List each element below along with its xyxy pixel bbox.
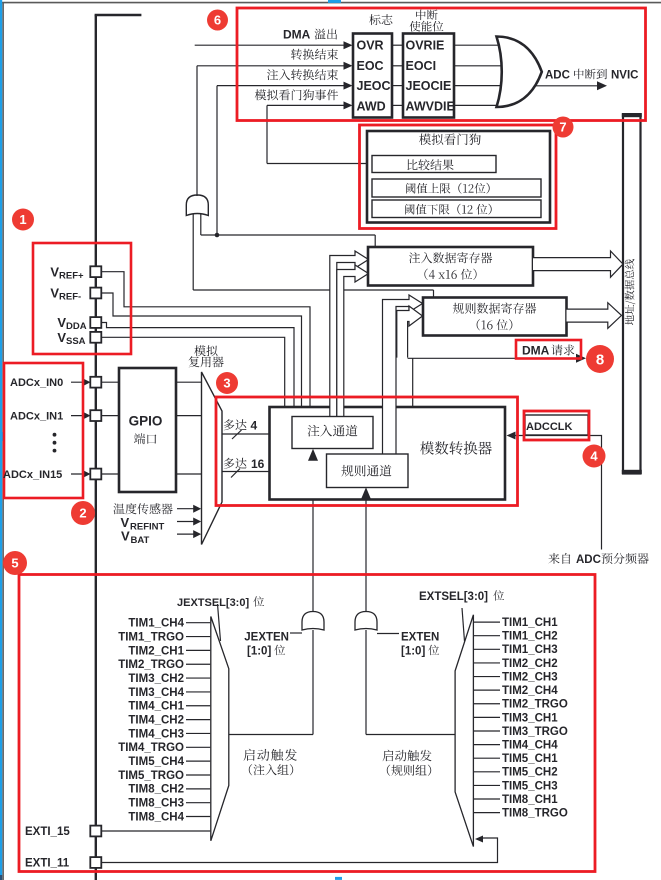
wire JEOC drop to injected register — [374, 235, 376, 248]
svg-text:JEXTEN: JEXTEN — [244, 631, 289, 643]
analog watchdog outer box — [367, 131, 550, 223]
svg-text:TIM5_TRGO: TIM5_TRGO — [118, 770, 184, 782]
arrow vbat into mux — [193, 530, 201, 538]
wire JEOC horizontal run — [201, 234, 375, 236]
svg-text:EXTSEL[3:0]: EXTSEL[3:0] — [419, 591, 488, 603]
svg-text:ADC: ADC — [545, 69, 570, 81]
label 比较结果 — [407, 159, 453, 170]
wire EXTEN gate input vertical — [365, 630, 367, 735]
label 注入转换结束 — [267, 69, 338, 80]
wire ADC input row 2 label-to-pin — [71, 473, 89, 475]
label 注入通道 — [308, 425, 358, 437]
wire TIM8_CH4 left — [186, 816, 210, 818]
wire TIM3_CH4 left — [186, 691, 210, 693]
red box 6 interrupt section — [237, 8, 646, 121]
label 模数转换器 — [420, 441, 492, 454]
regular data register box — [423, 298, 567, 336]
svg-text:REFINT: REFINT — [130, 521, 165, 532]
regular channel box — [327, 454, 409, 488]
svg-text:EXTI_15: EXTI_15 — [25, 826, 70, 838]
injected trigger mux — [211, 617, 229, 841]
lower threshold box — [372, 200, 541, 218]
svg-text:TIM5_CH2: TIM5_CH2 — [502, 767, 558, 779]
svg-text:V: V — [57, 330, 66, 345]
svg-text:TIM8_TRGO: TIM8_TRGO — [502, 808, 568, 820]
wire TIM2_CH1 left — [186, 649, 210, 651]
wire ADC input row 1 label-to-pin — [71, 415, 89, 417]
pin square VDDA — [90, 317, 101, 328]
label 多达16 — [224, 458, 247, 469]
svg-text:V: V — [50, 286, 59, 301]
svg-text:5: 5 — [11, 556, 18, 571]
arrow into OVR — [344, 41, 353, 49]
ADCCLK red box — [524, 411, 589, 440]
svg-text:EXTEN: EXTEN — [401, 631, 439, 643]
red box 2 adc inputs — [4, 363, 83, 498]
arrow EXTI_11 into mux — [475, 836, 483, 843]
regular trigger mux — [455, 615, 473, 847]
upper threshold box — [372, 179, 541, 197]
wire JEXTEN gate input vertical — [312, 630, 314, 735]
wire enable to orgate — [454, 65, 502, 67]
wire TIM4_CH2 left — [186, 719, 210, 721]
wire flag to enable — [392, 65, 403, 67]
wire flag to enable — [392, 104, 403, 106]
wire JEXTSEL select — [218, 604, 221, 641]
pin square VREF- — [90, 288, 101, 299]
svg-text:TIM5_CH4: TIM5_CH4 — [128, 756, 184, 768]
label 启动触发 injected — [244, 749, 297, 761]
wire EXTI_15 to mux — [102, 830, 211, 832]
arrow trigger into regular channel — [361, 487, 371, 499]
svg-text:REF+: REF+ — [59, 270, 84, 281]
regular data bent arrow 1 — [383, 295, 423, 454]
circle 4 — [583, 445, 606, 468]
wire EOC drop to regular register — [433, 290, 435, 298]
svg-text:EOCI: EOCI — [406, 59, 437, 73]
svg-text:BAT: BAT — [131, 535, 150, 546]
svg-text:TIM1_CH3: TIM1_CH3 — [502, 644, 558, 656]
injected data bent arrow 2 — [337, 265, 369, 416]
wire TIM2_TRGO left — [186, 663, 210, 665]
svg-text:TIM3_CH4: TIM3_CH4 — [128, 687, 184, 699]
wire TIM8_TRGO right — [474, 812, 500, 814]
label 来自ADC预分频器 — [548, 553, 570, 564]
wire DMA overflow to OVR — [195, 44, 346, 46]
wire GPIO to mux row 0 — [176, 381, 202, 383]
wire VREF- route — [102, 293, 302, 407]
wire flag to enable — [392, 85, 403, 87]
svg-text:ADCx_IN1: ADCx_IN1 — [10, 411, 63, 423]
blue tick top edge — [328, 0, 341, 3]
arrow into pin row 2 — [84, 471, 91, 478]
wire TIM1_CH2 right — [474, 635, 500, 637]
blue selection border left dark tail — [0, 875, 2, 880]
circle 6 — [207, 10, 228, 31]
svg-text:6: 6 — [214, 13, 221, 28]
label 地址/数据总线 vertical — [625, 259, 636, 325]
svg-text:16: 16 — [251, 457, 265, 471]
wire TIM5_TRGO left — [186, 774, 210, 776]
label (4x16位) — [424, 269, 476, 280]
wire TIM3_CH2 left — [186, 677, 210, 679]
pin square VREF+ — [90, 266, 101, 277]
svg-text:TIM4_TRGO: TIM4_TRGO — [118, 742, 184, 754]
svg-text:ADC: ADC — [576, 554, 601, 566]
arrow temp into mux — [193, 505, 201, 513]
svg-text:EOC: EOC — [357, 59, 384, 73]
wire TIM5_CH4 left — [186, 760, 210, 762]
svg-text:[1:0]: [1:0] — [247, 645, 271, 657]
wire TIM4_TRGO left — [186, 746, 210, 748]
wire TIM4_CH4 right — [474, 744, 500, 746]
circle 5 — [3, 551, 27, 575]
svg-text:JEOCIE: JEOCIE — [406, 79, 452, 93]
svg-text:TIM2_CH2: TIM2_CH2 — [502, 658, 558, 670]
compare result box — [372, 156, 496, 173]
label 使能位 — [410, 21, 444, 32]
wire rail top horizontal stub — [95, 14, 142, 16]
svg-text:TIM1_TRGO: TIM1_TRGO — [118, 631, 184, 643]
wire injected mux output — [229, 734, 313, 736]
GPIO port box — [119, 368, 176, 492]
bus bottom cap — [622, 470, 642, 474]
arrow into AWD — [344, 101, 353, 109]
slash tick duoda4 — [232, 430, 242, 439]
circle 7 — [553, 117, 574, 138]
wire EXTSEL select — [462, 608, 465, 641]
wire pin to GPIO row 1 — [102, 415, 120, 417]
wire EXTEN label line — [377, 633, 399, 635]
svg-text:TIM1_CH1: TIM1_CH1 — [502, 617, 558, 629]
wire TIM2_CH3 right — [474, 676, 500, 678]
wire TIM5_CH1 right — [474, 757, 500, 759]
svg-text:TIM2_CH3: TIM2_CH3 — [502, 671, 558, 683]
svg-text:8: 8 — [596, 351, 604, 368]
wire TIM8_CH1 right — [474, 798, 500, 800]
svg-text:ADCCLK: ADCCLK — [526, 421, 572, 433]
wire temp to mux — [177, 508, 194, 510]
svg-text:TIM2_CH1: TIM2_CH1 — [128, 645, 184, 657]
pin square EXTI_11 — [90, 857, 101, 868]
svg-text:JEOC: JEOC — [357, 79, 391, 93]
red box 1 vref pins — [33, 243, 131, 354]
label 温度传感器 — [113, 503, 172, 514]
wire GPIO to mux row 1 — [176, 415, 202, 417]
wire TIM4_CH3 left — [186, 732, 210, 734]
regular to bus hollow arrow — [567, 303, 622, 329]
circle 2 — [71, 501, 95, 525]
svg-text:GPIO: GPIO — [129, 414, 163, 429]
slash tick duoda16 — [231, 469, 240, 478]
svg-text:TIM8_CH2: TIM8_CH2 — [128, 784, 184, 796]
circle 3 — [216, 372, 238, 394]
wire VREF+ route — [102, 272, 311, 407]
wire AWD to flag box — [267, 104, 346, 106]
svg-text:TIM4_CH4: TIM4_CH4 — [502, 739, 558, 751]
svg-text:TIM2_TRGO: TIM2_TRGO — [118, 659, 184, 671]
label 转换结束 — [291, 49, 338, 60]
wire TIM2_CH4 right — [474, 689, 500, 691]
label (16位) — [477, 319, 513, 330]
enable box — [403, 34, 454, 118]
wire TIM1_CH4 left — [186, 622, 210, 624]
wire DMA request horizontal — [408, 357, 580, 359]
wire pin to GPIO row 2 — [102, 473, 120, 475]
wire TIM2_TRGO right — [474, 703, 500, 705]
wire flag to enable — [392, 44, 403, 46]
wire mux to regular channel — [222, 471, 320, 473]
svg-text:TIM1_CH2: TIM1_CH2 — [502, 631, 558, 643]
label 规则组 — [387, 765, 431, 776]
svg-text:2: 2 — [79, 506, 86, 521]
svg-text:NVIC: NVIC — [611, 69, 638, 81]
svg-text:TIM8_CH1: TIM8_CH1 — [502, 794, 558, 806]
injected data register box — [368, 247, 533, 286]
wire VSSA route — [102, 337, 285, 406]
svg-text:3: 3 — [223, 376, 230, 391]
blue selection border left — [0, 0, 2, 875]
svg-text:DDA: DDA — [66, 321, 87, 332]
arrow vrefint into mux — [193, 518, 201, 526]
label 阈值上限 — [406, 183, 490, 194]
blue tick bottom edge — [335, 877, 342, 880]
svg-text:V: V — [57, 315, 66, 330]
wire regular mux output — [366, 734, 455, 736]
arrow trigger into injected channel — [308, 449, 318, 461]
wire GPIO to mux row 2 — [176, 473, 202, 475]
svg-text:1: 1 — [19, 212, 26, 227]
page frame gray border left — [2, 2, 4, 880]
svg-text:TIM2_TRGO: TIM2_TRGO — [502, 699, 568, 711]
junction JEOC node — [215, 233, 220, 238]
arrow into pin row 1 — [84, 412, 91, 419]
bus top cap — [622, 113, 642, 117]
injected channel box — [292, 417, 373, 449]
svg-text:AWVDIE: AWVDIE — [406, 99, 455, 113]
arrow into injected channel — [280, 429, 292, 439]
injected data bent arrow 1 — [330, 251, 369, 416]
wire AWD vertical — [266, 105, 268, 163]
blue tick left edge — [0, 432, 5, 441]
svg-text:7: 7 — [559, 120, 566, 135]
label 规则数据寄存器 — [453, 303, 536, 314]
wire injected trigger vertical — [312, 449, 314, 611]
pin square VSSA — [90, 332, 101, 343]
regular data bent arrow 2 — [397, 306, 423, 358]
wire OR gate input injected vertical — [200, 214, 202, 235]
wire TIM3_CH1 right — [474, 716, 500, 718]
wire TIM1_CH3 right — [474, 648, 500, 650]
wire vrefint to mux — [177, 521, 194, 523]
wire mux to injected channel — [222, 433, 285, 435]
wire TIM8_CH3 left — [186, 802, 210, 804]
pin square IN15 — [90, 469, 101, 480]
label 模拟看门狗 — [419, 133, 481, 145]
svg-text:ADCx_IN0: ADCx_IN0 — [10, 377, 63, 389]
wire VDDA route — [102, 323, 295, 407]
wire EXTI_11 — [102, 838, 498, 863]
svg-text:EXTI_11: EXTI_11 — [25, 858, 70, 870]
wire enable to orgate — [454, 44, 502, 46]
pin square IN1 — [90, 410, 101, 421]
wire EOC gate output vertical — [196, 66, 198, 196]
arrow into JEOC — [344, 82, 353, 90]
label 注入组 — [249, 764, 293, 775]
svg-text:4: 4 — [590, 449, 598, 464]
svg-text:TIM5_CH1: TIM5_CH1 — [502, 753, 558, 765]
wire enable to orgate — [454, 85, 502, 87]
svg-text:[1:0]: [1:0] — [401, 645, 425, 657]
wire JEOC vertical — [216, 86, 218, 235]
svg-text:TIM5_CH3: TIM5_CH3 — [502, 780, 558, 792]
wire enable to orgate — [454, 104, 502, 106]
flags box — [353, 34, 392, 118]
red box 5 triggers — [19, 575, 595, 872]
wire regular trigger vertical — [365, 488, 367, 611]
wire EOC horizontal run — [193, 289, 433, 291]
label 端口 — [134, 433, 156, 444]
svg-text:TIM8_CH4: TIM8_CH4 — [128, 811, 184, 823]
arrow DMA request — [576, 354, 586, 363]
svg-text:V: V — [50, 264, 59, 279]
wire ADC input row 0 label-to-pin — [71, 381, 89, 383]
wire AWD compare horizontal — [267, 163, 372, 165]
wire TIM1_CH1 right — [474, 621, 500, 623]
label 标志 — [369, 14, 392, 25]
circle 8 — [586, 345, 614, 373]
svg-text:TIM4_CH2: TIM4_CH2 — [128, 715, 184, 727]
wire vbat to mux — [177, 533, 194, 535]
circle 1 — [12, 209, 34, 231]
label 模拟看门狗事件 — [255, 89, 338, 100]
arrow into regular channel — [315, 467, 327, 477]
arrow to NVIC — [597, 81, 607, 90]
svg-text:JEXTSEL[3:0]: JEXTSEL[3:0] — [177, 597, 249, 609]
DMA request red box — [516, 340, 581, 359]
address data bus pipe — [623, 115, 641, 474]
red box 7 watchdog — [360, 125, 557, 229]
wire TIM2_CH2 right — [474, 662, 500, 664]
wire DMA request vertical — [412, 358, 414, 407]
svg-text:TIM1_CH4: TIM1_CH4 — [128, 618, 184, 630]
wire TIM5_CH3 right — [474, 784, 500, 786]
label mux 复用器 — [189, 356, 224, 367]
svg-text:DMA: DMA — [283, 28, 311, 42]
svg-text:OVRIE: OVRIE — [406, 39, 445, 53]
exten gate — [355, 612, 377, 631]
ADC converter box — [270, 407, 506, 500]
arrow into pin row 0 — [84, 379, 91, 386]
wire JEOC to flag box — [217, 85, 346, 87]
pin square IN0 — [90, 377, 101, 388]
wire EOC to flag box — [197, 65, 346, 67]
label 注入数据寄存器 — [409, 252, 492, 263]
svg-text:REF-: REF- — [59, 292, 81, 303]
label 多达4 — [224, 419, 247, 430]
svg-text:4: 4 — [251, 418, 258, 432]
pin square EXTI_15 — [90, 826, 101, 837]
ellipsis dots ADC inputs — [53, 433, 57, 437]
svg-text:DMA: DMA — [522, 344, 550, 358]
arrow into EOC — [344, 62, 353, 70]
svg-text:TIM3_CH1: TIM3_CH1 — [502, 712, 558, 724]
injected to bus hollow arrow — [533, 251, 623, 277]
svg-text:TIM3_TRGO: TIM3_TRGO — [502, 726, 568, 738]
svg-text:TIM4_CH1: TIM4_CH1 — [128, 701, 184, 713]
label 阈值下限 — [405, 204, 492, 215]
wire OR gate input regular vertical — [192, 214, 194, 290]
or-gate U2 EOC combine — [186, 195, 208, 216]
wire TIM3_TRGO right — [474, 730, 500, 732]
or-gate U1 interrupt — [497, 37, 542, 108]
wire JEXTEN label line — [290, 632, 302, 634]
ADCCLK inner box — [525, 415, 588, 435]
wire TIM5_CH2 right — [474, 771, 500, 773]
analog mux trapezoid — [202, 372, 223, 545]
wire TIM1_TRGO left — [186, 636, 210, 638]
wire ADCCLK — [510, 436, 602, 550]
svg-text:SSA: SSA — [66, 336, 86, 347]
red box 3 converter — [216, 397, 518, 506]
svg-text:V: V — [121, 528, 130, 543]
label mux 模拟 — [194, 345, 217, 356]
svg-text:TIM3_CH2: TIM3_CH2 — [128, 673, 184, 685]
svg-text:TIM4_CH3: TIM4_CH3 — [128, 728, 184, 740]
svg-text:ADCx_IN15: ADCx_IN15 — [3, 469, 62, 481]
label 规则通道 — [341, 465, 391, 477]
jexten gate — [302, 612, 324, 631]
svg-text:OVR: OVR — [357, 39, 384, 53]
label 启动触发 regular — [383, 750, 432, 762]
wire TIM8_CH2 left — [186, 788, 210, 790]
page frame gray border top — [2, 2, 661, 4]
wire main input rail vertical — [95, 15, 97, 880]
arrow ADCCLK into ADC — [507, 432, 516, 440]
wire pin to GPIO row 0 — [102, 381, 120, 383]
label 中断 — [416, 10, 438, 21]
wire NVIC arrow — [536, 85, 601, 87]
svg-text:AWD: AWD — [357, 99, 386, 113]
svg-text:TIM2_CH4: TIM2_CH4 — [502, 685, 558, 697]
svg-text:TIM8_CH3: TIM8_CH3 — [128, 798, 184, 810]
wire TIM4_CH1 left — [186, 705, 210, 707]
